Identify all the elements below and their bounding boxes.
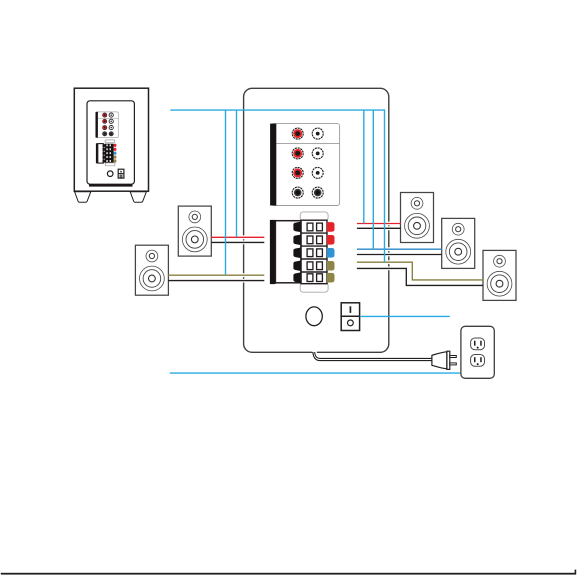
speaker SP2 (surround left) [135, 245, 168, 295]
cyan drop to SP4 wire [372, 110, 374, 249]
terminal tab row 3 (blue) [327, 248, 335, 258]
RCA jack L2 (red) [292, 148, 303, 159]
wire SP3 positive (red) [357, 222, 401, 226]
power plug face [447, 351, 450, 369]
wire SP2 negative (black) [168, 279, 264, 283]
terminal clamp row 5 [293, 272, 301, 283]
RCA jack L4 (black) [292, 187, 303, 198]
RCA jack R4 (black) [312, 187, 323, 198]
subwoofer RCA jack R1 (white) [109, 113, 113, 117]
terminal tab row 2 (red) [327, 235, 335, 245]
subwoofer right foot [130, 192, 146, 203]
terminal block bottom tab [300, 282, 328, 292]
RCA jack L1 (red) [292, 128, 303, 139]
subwoofer RCA jack L2 (red) [103, 119, 107, 123]
power plug prong 2 [450, 363, 457, 365]
subwoofer RCA jack R3 (white) [109, 126, 113, 130]
subwoofer terminal top tab [105, 140, 115, 143]
AC wall outlet plate [461, 326, 494, 378]
outlet receptacle bottom [471, 355, 485, 367]
terminal block black bar [270, 220, 276, 284]
subwoofer RCA jack L4 (black) [103, 132, 107, 136]
subwoofer terminal clamp block [103, 144, 114, 163]
subwoofer RCA plate black bar [96, 112, 98, 138]
RCA jack plate [271, 124, 339, 206]
subwoofer RCA input plate [96, 112, 119, 138]
terminal clamp row 1 [293, 222, 301, 233]
cyan drop to SP3 wire [363, 110, 365, 223]
subwoofer panel base bar [89, 184, 133, 186]
subwoofer terminal windows [106, 144, 111, 162]
terminal cell grid [301, 220, 327, 284]
subwoofer RCA jack L1 (red) [103, 113, 107, 117]
gap in panel edge for power cord [312, 351, 317, 354]
subwoofer level knob [107, 171, 113, 177]
terminal clamp row 4 [293, 260, 301, 271]
wire SP5 negative (black) [357, 268, 483, 285]
subwoofer SW1 cabinet (rear view) [74, 88, 148, 191]
power plug body [432, 352, 447, 369]
outlet receptacle top [471, 338, 485, 350]
subwoofer left foot [75, 192, 91, 203]
wire SP4 negative (black) [357, 253, 442, 257]
wire SP3 negative (black) [357, 226, 401, 230]
RCA jack R1 (white) [312, 128, 323, 139]
wire SP4 positive (blue) [357, 247, 442, 251]
subwoofer RCA jack R4 (black) [109, 132, 113, 136]
terminal clamp row 2 [293, 234, 301, 245]
terminal block top tab [300, 212, 328, 221]
RCA jack R3 (white) [312, 167, 323, 178]
subwoofer RCA jack R2 (white) [109, 119, 113, 123]
power cord [313, 352, 432, 361]
wire SP5 positive (olive) [357, 262, 483, 280]
cyan bottom run to outlet [170, 372, 461, 374]
terminal clamp row 3 [293, 247, 301, 258]
terminal tab row 1 (red) [327, 222, 335, 232]
speaker SP5 (surround right) [483, 250, 516, 300]
RCA plate black bar [270, 124, 276, 206]
terminal block bracket box [275, 221, 301, 283]
cyan drop to SP1 wire [236, 110, 238, 237]
RCA jack L3 (red) [292, 167, 303, 178]
subwoofer power switch [118, 169, 124, 178]
wire SP1 positive (red) [211, 235, 264, 239]
subwoofer terminal colored tabs [114, 144, 117, 163]
terminal windows [307, 223, 322, 281]
console knob [306, 307, 322, 326]
power plug prong 1 [450, 356, 457, 358]
control console panel U1 [244, 88, 389, 352]
wire SP1 negative (black) [211, 240, 264, 244]
wire SP2 positive (olive) [168, 273, 264, 277]
subwoofer terminal bottom tab [105, 163, 115, 166]
page footer rule [1, 573, 576, 575]
cyan drop to SP2 wire [225, 110, 227, 274]
subwoofer terminal black bar [96, 143, 98, 163]
subwoofer terminal bracket box [98, 144, 104, 164]
speaker SP3 (front right) [401, 193, 434, 243]
cyan signal cable main run with corner drop [170, 110, 384, 262]
terminal tab row 4 (olive) [327, 261, 335, 271]
subwoofer recessed rear panel [87, 101, 134, 184]
speaker SP1 (front left) [178, 206, 211, 256]
speaker SP4 (center) [442, 218, 475, 268]
console power switch SW2 [341, 303, 359, 331]
cyan lead from power switch [360, 315, 450, 317]
subwoofer RCA jack L3 (red) [103, 126, 107, 130]
RCA jack R2 (white) [312, 148, 323, 159]
terminal tab row 5 (olive) [327, 273, 335, 283]
